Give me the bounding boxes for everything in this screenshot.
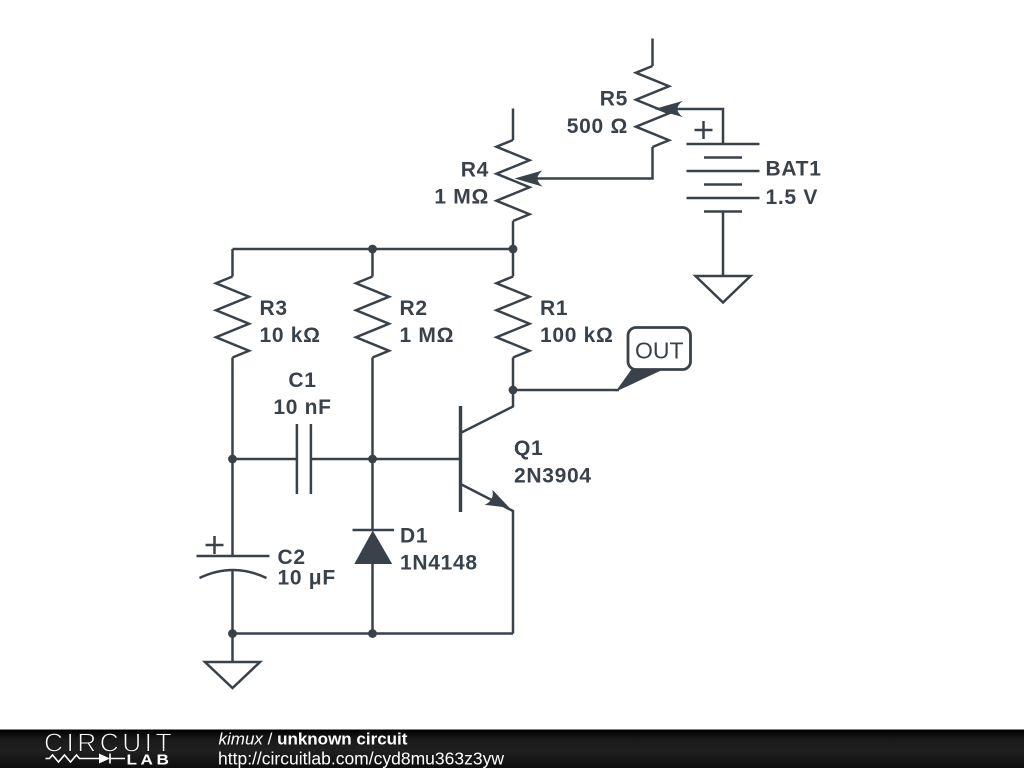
svg-text:kimux / unknown circuit: kimux / unknown circuit — [219, 730, 408, 749]
svg-text:10 kΩ: 10 kΩ — [260, 324, 321, 347]
svg-text:R1: R1 — [540, 297, 568, 320]
svg-text:C1: C1 — [288, 369, 316, 392]
svg-text:1.5 V: 1.5 V — [766, 186, 819, 209]
svg-text:1 MΩ: 1 MΩ — [434, 186, 489, 209]
svg-text:100 kΩ: 100 kΩ — [540, 324, 614, 347]
svg-text:1N4148: 1N4148 — [400, 552, 478, 575]
svg-text:BAT1: BAT1 — [766, 158, 822, 181]
svg-text:2N3904: 2N3904 — [514, 465, 592, 488]
svg-text:10 nF: 10 nF — [273, 396, 331, 419]
svg-text:R3: R3 — [260, 297, 288, 320]
svg-text:10 μF: 10 μF — [278, 567, 336, 590]
svg-text:R2: R2 — [400, 297, 428, 320]
svg-text:500 Ω: 500 Ω — [567, 115, 628, 138]
svg-text:R5: R5 — [600, 88, 628, 111]
svg-text:OUT: OUT — [635, 337, 684, 363]
svg-text:Q1: Q1 — [514, 437, 543, 460]
svg-text:R4: R4 — [461, 159, 489, 182]
svg-text:D1: D1 — [400, 525, 428, 548]
svg-text:LAB: LAB — [127, 753, 173, 768]
svg-text:1 MΩ: 1 MΩ — [400, 324, 455, 347]
svg-text:http://circuitlab.com/cyd8mu36: http://circuitlab.com/cyd8mu363z3yw — [218, 749, 504, 768]
